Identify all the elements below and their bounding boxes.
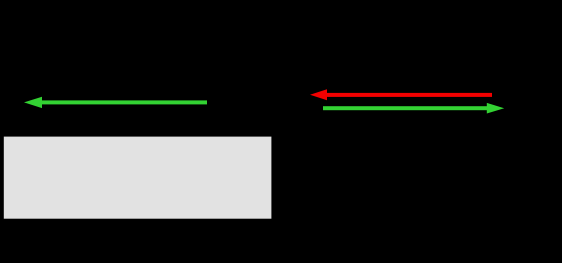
mirror slab xyxy=(4,137,272,219)
reflected wave arrow (left panel, green, pointing left) xyxy=(24,97,207,108)
incident wave arrow (right panel, red, pointing left) xyxy=(310,89,492,100)
transmitted wave arrow (right panel, green, pointing right) xyxy=(323,103,504,114)
